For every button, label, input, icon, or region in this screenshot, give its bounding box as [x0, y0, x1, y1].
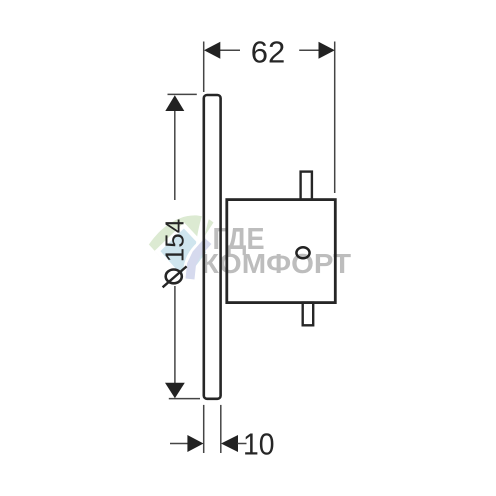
dim62 arrow left [204, 42, 220, 59]
dim10 arrow right [221, 435, 238, 452]
dim10 tail right [238, 443, 247, 445]
svg-text:10: 10 [243, 426, 275, 461]
valve screw circle [296, 247, 309, 258]
watermark logo leaf green [149, 215, 214, 276]
dia154 dim line upper [174, 108, 176, 200]
dia154 tick bottom [169, 398, 200, 400]
dim10 arrow left [187, 435, 203, 452]
valve body bottom tab [303, 303, 314, 326]
dia154 label diameter slash [163, 266, 187, 287]
dim62 tail right [299, 49, 319, 51]
dim10 ext line left [203, 405, 205, 453]
svg-text:62: 62 [251, 34, 285, 69]
valve body top tab [301, 172, 312, 200]
dim10 ext line right [220, 405, 222, 453]
dia154 label diameter circle [166, 270, 182, 284]
dim62 arrow right [319, 42, 335, 59]
plate [204, 95, 221, 399]
dim62 ext line right [334, 42, 336, 194]
dia154 arrow up [165, 95, 184, 111]
dia154 tick top [168, 93, 197, 95]
dia154 dim line lower [174, 286, 176, 384]
dim10 tail left [170, 443, 189, 445]
svg-text:КОМФОРТ: КОМФОРТ [201, 248, 351, 279]
dim62 ext line left [203, 42, 205, 93]
dia154 arrow down [165, 383, 185, 399]
watermark logo diamond blue [158, 226, 210, 284]
dim62 tail left [219, 49, 240, 51]
watermark logo band lavender [190, 241, 208, 279]
watermark logo swoosh white [186, 211, 208, 280]
svg-text:154: 154 [159, 219, 189, 262]
valve body box [227, 200, 335, 303]
